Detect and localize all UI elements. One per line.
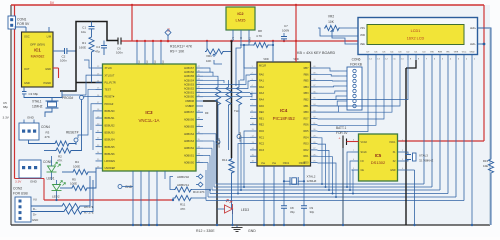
- svg-text:VR2: VR2: [328, 15, 334, 19]
- svg-text:VR1: VR1: [206, 54, 212, 58]
- svg-text:ACBUS2: ACBUS2: [184, 88, 195, 91]
- wire 5V to DS1302 VCC1: [398, 140, 485, 142]
- border frame left: [10, 5, 12, 225]
- wire PLL filter loop: [60, 22, 118, 92]
- wire 5V drop x296: [295, 5, 297, 62]
- svg-text:D+: D+: [33, 213, 37, 217]
- svg-text:MCLR: MCLR: [259, 65, 266, 68]
- svg-text:R12 = 330E: R12 = 330E: [196, 229, 215, 233]
- wire IC4 top pins: [272, 41, 274, 62]
- svg-text:ADBUS2: ADBUS2: [239, 131, 242, 141]
- LED LED3: [225, 200, 233, 215]
- svg-text:ACBUS3: ACBUS3: [184, 83, 195, 86]
- wire 3.3V to CON5 row: [15, 178, 45, 180]
- svg-text:VDD: VDD: [263, 58, 268, 61]
- svg-text:BATT.1: BATT.1: [336, 126, 346, 130]
- svg-text:R11: R11: [180, 203, 186, 207]
- thermistor TH1: [236, 86, 241, 106]
- wire IC3 ADBUS drops to bus: [203, 133, 216, 135]
- IC U4 PIC18F452: [257, 58, 311, 166]
- border frame right: [489, 29, 491, 225]
- svg-text:LED–: LED–: [470, 43, 477, 46]
- wire black vertical 217: [203, 101, 217, 225]
- svg-text:VSS: VSS: [360, 27, 365, 30]
- svg-text:XTLOUT: XTLOUT: [105, 74, 115, 77]
- svg-text:XTLIN: XTLIN: [105, 67, 112, 70]
- svg-text:ACBUS4: ACBUS4: [184, 79, 195, 82]
- svg-text:OFF (0/5V): OFF (0/5V): [30, 43, 45, 47]
- svg-text:OSC: OSC: [24, 35, 30, 39]
- svg-text:10E: 10E: [483, 164, 488, 168]
- svg-text:ACBUS1: ACBUS1: [184, 92, 195, 95]
- svg-text:3.3V: 3.3V: [3, 116, 10, 120]
- svg-text:LM35: LM35: [235, 18, 246, 23]
- svg-text:CON4: CON4: [41, 125, 50, 129]
- svg-text:VEE: VEE: [360, 43, 365, 46]
- svg-text:RB3: RB3: [304, 92, 309, 95]
- svg-text:10K: 10K: [206, 59, 211, 63]
- svg-text:ADBUS3: ADBUS3: [184, 140, 195, 143]
- svg-text:GND: GND: [45, 67, 51, 71]
- wire IC4 right pins: [311, 67, 318, 69]
- svg-text:VCC1: VCC1: [389, 141, 396, 144]
- connector CON5: [19, 160, 52, 178]
- svg-text:+V: +V: [232, 37, 235, 40]
- svg-text:RA3: RA3: [259, 92, 264, 95]
- wire pullups: [170, 177, 174, 190]
- svg-text:VCC: VCC: [147, 60, 149, 65]
- wire keyboard bus: [318, 68, 340, 71]
- svg-text:GND: GND: [125, 185, 133, 189]
- wire IC3 bottom pins: [132, 171, 134, 225]
- wire bus black vertical: [231, 41, 233, 158]
- svg-text:LED2: LED2: [52, 195, 60, 199]
- svg-text:ADBUS6: ADBUS6: [184, 118, 195, 121]
- svg-text:BDBUS5: BDBUS5: [105, 146, 116, 149]
- wire IC1 GND red: [58, 68, 60, 78]
- wire usb data: [31, 205, 61, 207]
- svg-text:RC1: RC1: [259, 136, 265, 139]
- wire black bus vertical right: [405, 68, 407, 225]
- svg-text:LMXDEN: LMXDEN: [105, 160, 116, 163]
- svg-text:USBDM: USBDM: [185, 100, 194, 103]
- svg-text:CON2: CON2: [13, 187, 22, 191]
- svg-text:VCC: VCC: [139, 60, 141, 65]
- svg-text:ACBUS7: ACBUS7: [184, 67, 195, 70]
- svg-text:PIC18F452: PIC18F452: [273, 116, 296, 121]
- svg-text:100E: 100E: [73, 165, 80, 169]
- svg-text:PROG#: PROG#: [62, 96, 73, 100]
- svg-text:10u: 10u: [81, 30, 86, 34]
- svg-text:12MHZ: 12MHZ: [307, 179, 317, 183]
- svg-text:GND: GND: [24, 81, 30, 85]
- wire IC5 right pins: [398, 151, 405, 153]
- svg-text:R10 47K: R10 47K: [193, 190, 205, 194]
- op-amp IC1 MAX682: [22, 32, 54, 87]
- svg-text:FOR USB: FOR USB: [13, 192, 28, 196]
- svg-text:BDBUS1: BDBUS1: [105, 117, 116, 120]
- connector CON1: [8, 16, 30, 29]
- crystal XTAL1: [48, 102, 57, 107]
- wire 5V top rail: [11, 4, 484, 6]
- svg-text:LED+: LED+: [470, 27, 477, 30]
- svg-text:CE: CE: [361, 169, 365, 172]
- svg-text:10K: 10K: [328, 20, 335, 24]
- svg-text:XTAL2: XTAL2: [307, 175, 316, 179]
- capacitor C4: [103, 41, 105, 46]
- svg-text:VU: VU: [33, 198, 37, 202]
- crystal XTAL2: [292, 178, 297, 185]
- wire 5V right drop: [483, 5, 485, 141]
- svg-text:100n: 100n: [116, 51, 123, 55]
- wire LCD GND pin to rail: [471, 60, 473, 225]
- svg-text:ACBUS6: ACBUS6: [184, 71, 195, 74]
- svg-text:RS: RS: [446, 52, 450, 54]
- svg-text:47p: 47p: [95, 50, 100, 54]
- wire IC3 left pins: [96, 67, 103, 69]
- svg-text:RB4: RB4: [304, 86, 309, 89]
- svg-text:RD1: RD1: [303, 155, 309, 158]
- svg-text:12MHZ: 12MHZ: [32, 105, 43, 109]
- svg-text:C7: C7: [284, 24, 288, 28]
- sensor IC2 LM35: [226, 7, 255, 43]
- svg-text:100n: 100n: [60, 59, 67, 63]
- svg-text:FOR 3V: FOR 3V: [336, 131, 348, 135]
- svg-text:VCC: VCC: [155, 60, 157, 65]
- resistor R2: [55, 148, 72, 153]
- svg-text:SCLK: SCLK: [361, 151, 368, 154]
- svg-text:16X2 LCD: 16X2 LCD: [407, 37, 425, 41]
- wire PLL to IC3: [76, 82, 103, 84]
- svg-text:GND: GND: [390, 169, 396, 172]
- wire IC5 left pins: [352, 151, 359, 153]
- svg-text:ACBUS0: ACBUS0: [184, 96, 195, 99]
- svg-text:IC3: IC3: [145, 110, 153, 115]
- svg-text:RD5: RD5: [303, 130, 309, 133]
- potentiometer VR1: [206, 41, 208, 49]
- svg-text:VDD: VDD: [360, 34, 365, 37]
- wire IC2 pins: [232, 30, 234, 41]
- svg-text:PGND: PGND: [44, 81, 52, 85]
- resistor R1: [91, 29, 93, 36]
- svg-text:GND: GND: [248, 229, 256, 233]
- svg-text:RE2: RE2: [259, 124, 264, 127]
- svg-text:RB7: RB7: [304, 67, 309, 70]
- svg-text:CON6: CON6: [352, 58, 361, 62]
- resistor R7: [63, 209, 83, 214]
- svg-text:32.768KHZ: 32.768KHZ: [419, 159, 433, 163]
- svg-text:ADBUS5: ADBUS5: [184, 126, 195, 129]
- wire IC4 lower right to bus: [318, 138, 323, 184]
- svg-text:IC4: IC4: [280, 108, 288, 113]
- svg-text:RESET#: RESET#: [105, 96, 115, 99]
- svg-text:R1: R1: [82, 41, 86, 45]
- wire LCD data to IC4 RD: [318, 60, 409, 100]
- capacitor C9: [301, 206, 307, 208]
- svg-text:OSC1: OSC1: [283, 162, 290, 165]
- svg-text:160E: 160E: [79, 46, 86, 50]
- resistor R11: [174, 195, 192, 200]
- wire IC4 left pins: [250, 67, 257, 69]
- svg-text:R9 = 10K: R9 = 10K: [170, 50, 185, 54]
- svg-text:RB0: RB0: [304, 111, 309, 114]
- ground rail bottom border: [11, 224, 490, 226]
- svg-text:RB1: RB1: [304, 105, 309, 108]
- svg-text:UMXDEP: UMXDEP: [105, 167, 116, 170]
- svg-text:R3: R3: [46, 131, 50, 135]
- svg-text:C1: C1: [82, 26, 86, 30]
- svg-text:I/O: I/O: [361, 160, 364, 163]
- wire LCD EN black: [406, 60, 416, 68]
- svg-text:GND: GND: [470, 52, 475, 54]
- svg-text:3.3V: 3.3V: [15, 180, 22, 184]
- svg-text:RC0: RC0: [259, 130, 265, 133]
- resistor R10 pullup: [174, 187, 192, 192]
- svg-text:USBDP: USBDP: [185, 105, 194, 108]
- wire 3.3V left vertical: [14, 29, 16, 179]
- resistor R9: [215, 86, 220, 106]
- svg-text:R12: R12: [222, 158, 228, 162]
- wire IC4 bottom pins: [263, 166, 265, 174]
- svg-text:OUT: OUT: [24, 67, 30, 71]
- svg-text:ADBUS1: ADBUS1: [184, 154, 195, 157]
- display LCD1 16X2: [358, 18, 478, 55]
- svg-text:RD2: RD2: [303, 149, 309, 152]
- svg-text:47K: 47K: [180, 207, 185, 211]
- svg-text:LED1: LED1: [47, 177, 55, 181]
- svg-text:RD4: RD4: [303, 136, 309, 139]
- resistor R13: [488, 158, 493, 174]
- svg-text:R10,R11= 47K: R10,R11= 47K: [170, 45, 193, 49]
- svg-text:RD7: RD7: [303, 117, 309, 120]
- svg-text:DS1302: DS1302: [371, 160, 386, 165]
- svg-text:ADBUS4: ADBUS4: [218, 137, 221, 147]
- svg-text:ADBUS7: ADBUS7: [184, 111, 195, 114]
- svg-text:R4: R4: [75, 160, 79, 164]
- svg-text:FOR 5V: FOR 5V: [17, 22, 30, 26]
- svg-text:LED3: LED3: [241, 208, 249, 212]
- svg-text:BDBUS4: BDBUS4: [105, 139, 116, 142]
- svg-text:PROG#: PROG#: [105, 103, 114, 106]
- svg-text:BDBUS0: BDBUS0: [105, 110, 116, 113]
- svg-text:OSC2: OSC2: [299, 162, 306, 165]
- svg-text:IC1: IC1: [34, 48, 41, 53]
- LED LED2: [52, 181, 66, 191]
- wire IC3 right pins: [196, 67, 203, 69]
- svg-text:IC5: IC5: [375, 153, 382, 158]
- wire 5V drop to CON1: [14, 5, 16, 17]
- svg-text:RA1: RA1: [259, 80, 264, 83]
- wire IC1 pins: [25, 27, 27, 32]
- wire 5V mid rail: [124, 40, 358, 42]
- svg-text:ACBUS5: ACBUS5: [184, 75, 195, 78]
- svg-text:ADBUS2: ADBUS2: [184, 147, 195, 150]
- resistor R10: [226, 86, 231, 106]
- resistor R6: [61, 203, 81, 208]
- svg-text:R8: R8: [258, 29, 262, 33]
- svg-text:MAX682: MAX682: [31, 55, 45, 59]
- svg-text:RE0: RE0: [259, 111, 264, 114]
- wire IC3 left ladder: [84, 60, 96, 68]
- svg-text:RB6: RB6: [304, 73, 309, 76]
- svg-text:100E: 100E: [70, 182, 77, 186]
- svg-text:RA2: RA2: [259, 86, 264, 89]
- svg-text:RA5: RA5: [259, 105, 264, 108]
- svg-text:BDBUS2: BDBUS2: [105, 124, 116, 127]
- svg-text:GND: GND: [32, 218, 38, 222]
- svg-text:ADBUS4: ADBUS4: [184, 133, 195, 136]
- svg-text:47K: 47K: [57, 159, 62, 163]
- svg-text:EN: EN: [430, 52, 433, 54]
- svg-text:VCC2: VCC2: [361, 141, 368, 144]
- svg-text:R9: R9: [205, 111, 209, 115]
- svg-text:68p: 68p: [3, 105, 8, 109]
- svg-text:33p: 33p: [310, 210, 315, 214]
- wire LCD bottom pins: [367, 55, 369, 61]
- svg-text:CON5: CON5: [43, 160, 52, 164]
- svg-text:IC2: IC2: [237, 11, 244, 16]
- wire IC3 VCC drops: [136, 41, 138, 64]
- svg-text:GND: GND: [30, 180, 38, 184]
- svg-text:5V: 5V: [50, 1, 55, 5]
- svg-text:BDBUS3: BDBUS3: [105, 131, 116, 134]
- connector CON4: [19, 120, 50, 141]
- wire LCD backlight: [478, 28, 492, 158]
- svg-text:ADBUS1: ADBUS1: [177, 183, 189, 187]
- svg-text:C4: C4: [96, 45, 100, 49]
- svg-text:O: O: [240, 37, 243, 39]
- svg-text:4.7K: 4.7K: [256, 34, 262, 38]
- svg-text:RC2: RC2: [259, 143, 265, 146]
- svg-text:TEST: TEST: [105, 89, 112, 92]
- resistor R12: [229, 158, 234, 174]
- svg-text:VEE: VEE: [454, 52, 459, 54]
- svg-text:RA0: RA0: [259, 73, 264, 76]
- svg-text:VCC: VCC: [163, 60, 165, 65]
- svg-text:33p: 33p: [290, 210, 295, 214]
- LED LED1: [47, 162, 61, 172]
- wire battery: [347, 141, 359, 143]
- svg-text:47K: 47K: [45, 135, 50, 139]
- capacitor C1: [91, 22, 93, 27]
- svg-text:XTAL3: XTAL3: [419, 154, 428, 158]
- svg-text:100N: 100N: [282, 29, 289, 33]
- svg-text:PLL/FLTR: PLL/FLTR: [105, 81, 116, 84]
- svg-text:VNC1L-1A: VNC1L-1A: [139, 118, 160, 123]
- svg-text:RD3: RD3: [303, 143, 309, 146]
- svg-text:RA4: RA4: [259, 99, 264, 102]
- svg-text:BDBUS6: BDBUS6: [105, 153, 116, 156]
- wire led3: [217, 208, 225, 210]
- svg-text:XTAL1: XTAL1: [32, 100, 42, 104]
- svg-text:KB = 4X4 KEY BOARD: KB = 4X4 KEY BOARD: [297, 51, 335, 55]
- svg-text:RC3: RC3: [259, 149, 265, 152]
- svg-text:GND: GND: [27, 116, 35, 120]
- svg-text:LIM: LIM: [47, 35, 51, 39]
- svg-text:RE1: RE1: [259, 117, 264, 120]
- svg-text:D–: D–: [33, 207, 37, 211]
- wire 3.3V CON5 drop: [43, 179, 45, 201]
- wire IC4 RC left pins to bus: [244, 131, 250, 187]
- wire IC1 LIM to C2: [53, 50, 65, 52]
- wire sensor network: [217, 78, 219, 86]
- wire 5V drop x132: [131, 5, 133, 41]
- wire xtal1: [23, 87, 25, 91]
- IC U3 VNC1L-1A: [103, 64, 197, 171]
- capacitor C2: [65, 48, 67, 54]
- wire 3.3V bottom rail: [44, 199, 173, 201]
- wire acbus links: [203, 68, 210, 72]
- crystal XTAL3: [405, 152, 409, 155]
- IC U5 DS1302 RTC: [359, 134, 398, 181]
- svg-text:C3 68p: C3 68p: [29, 92, 39, 96]
- svg-text:VCC: VCC: [462, 52, 467, 54]
- ground symbol main: [236, 225, 238, 227]
- wire bus LCD control bottom: [216, 183, 424, 185]
- capacitor C8: [281, 206, 287, 208]
- svg-text:RB5: RB5: [304, 80, 309, 83]
- svg-text:ADBUS0: ADBUS0: [184, 162, 195, 165]
- svg-text:RESET#: RESET#: [66, 131, 79, 135]
- svg-text:RD6: RD6: [303, 124, 309, 127]
- svg-text:LCD1: LCD1: [411, 29, 421, 33]
- svg-text:RB2: RB2: [304, 99, 309, 102]
- capacitor C6: [118, 38, 121, 45]
- svg-text:FOR KB: FOR KB: [350, 63, 362, 67]
- svg-text:ADBUS0: ADBUS0: [177, 175, 189, 179]
- svg-text:R13: R13: [483, 159, 489, 163]
